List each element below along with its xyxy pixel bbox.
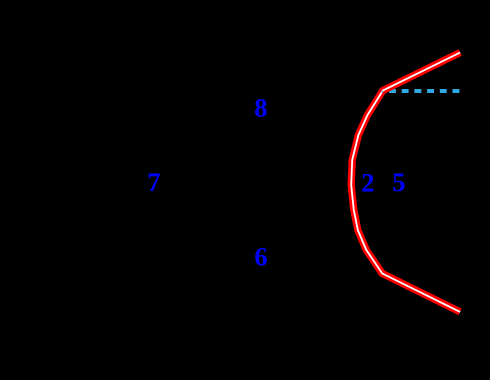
svg-text:6: 6 xyxy=(254,242,267,272)
svg-text:8: 8 xyxy=(254,93,267,123)
red curve (outer) xyxy=(351,53,460,312)
svg-text:7: 7 xyxy=(147,167,160,197)
white core of curve xyxy=(351,53,460,312)
svg-text:2: 2 xyxy=(361,167,374,197)
dash fragment at kink xyxy=(382,91,383,93)
svg-text:5: 5 xyxy=(392,167,405,197)
dashed cyan line xyxy=(389,89,460,93)
